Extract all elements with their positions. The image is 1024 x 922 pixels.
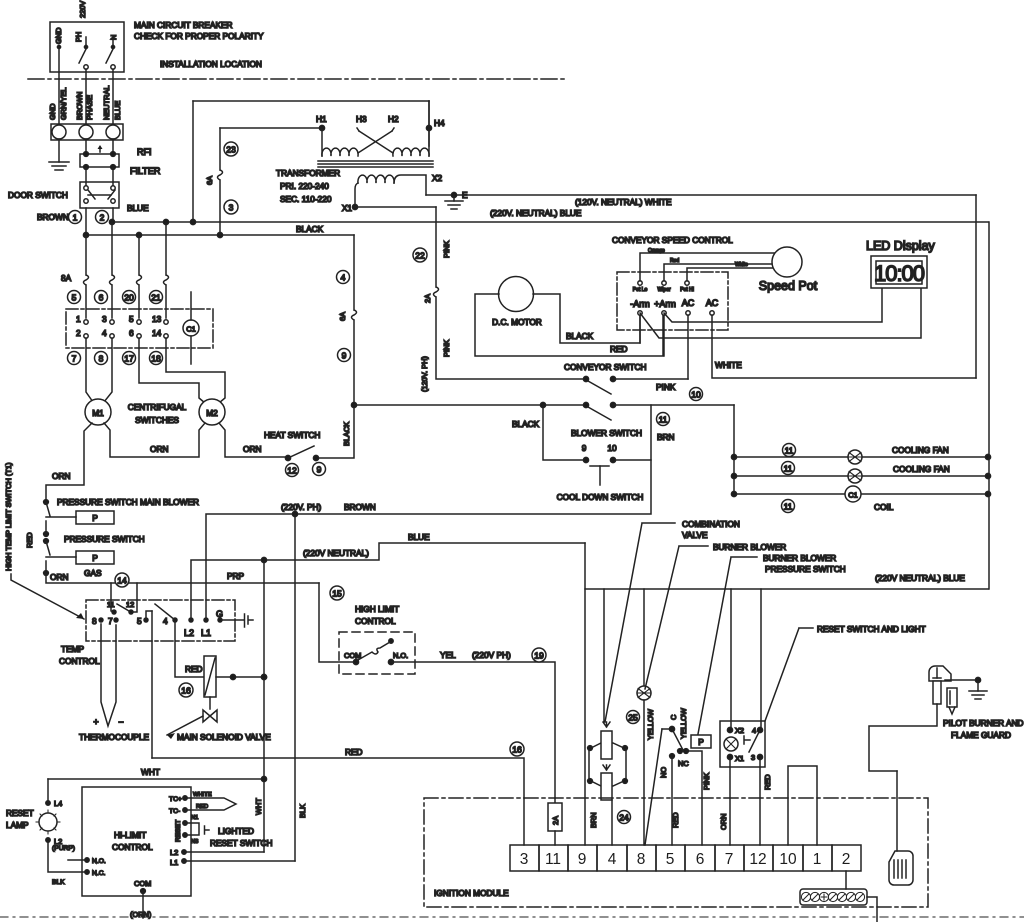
svg-text:4: 4: [608, 851, 617, 868]
svg-text:BLK: BLK: [298, 804, 307, 818]
svg-text:+Arm: +Arm: [654, 299, 676, 309]
svg-text:H2: H2: [388, 114, 399, 124]
svg-text:CONTROL: CONTROL: [112, 842, 153, 852]
cooling fan 1: [734, 456, 988, 458]
svg-text:PINK: PINK: [656, 382, 676, 392]
svg-text:X2: X2: [735, 726, 744, 735]
ground E: [451, 192, 456, 197]
pot terminals: [638, 281, 642, 285]
svg-text:E: E: [462, 190, 468, 200]
svg-text:FILTER: FILTER: [130, 166, 161, 176]
svg-text:5: 5: [666, 851, 675, 868]
svg-text:THERMOCOUPLE: THERMOCOUPLE: [79, 732, 150, 742]
svg-text:H3: H3: [356, 114, 367, 124]
svg-text:14: 14: [117, 576, 127, 586]
balloon 10: [690, 388, 703, 401]
svg-text:RED: RED: [196, 804, 208, 810]
svg-text:3: 3: [229, 203, 234, 213]
contactor box: [66, 309, 213, 348]
ground: [58, 139, 60, 162]
junction blue bus / fuse column 4: [163, 219, 168, 224]
balloon 22: [413, 248, 427, 262]
main circuit breaker box: [50, 22, 124, 72]
svg-text:BROWN: BROWN: [344, 502, 376, 512]
reset switch and light box: [720, 721, 765, 767]
callout burner blower pressure switch: [698, 557, 757, 734]
svg-text:LED Display: LED Display: [866, 239, 936, 253]
svg-text:RED: RED: [345, 747, 363, 757]
svg-text:L2: L2: [184, 628, 194, 638]
contact 3 down to terminal 12: [759, 759, 761, 845]
svg-text:N.O.: N.O.: [393, 651, 408, 660]
svg-text:1: 1: [73, 213, 78, 223]
terminal 2 to spark strip: [845, 871, 847, 889]
svg-text:20: 20: [124, 293, 134, 303]
svg-text:1: 1: [76, 314, 81, 324]
blue right vertical: [988, 222, 990, 589]
svg-text:6: 6: [99, 293, 104, 303]
contactor coil C1: [183, 320, 199, 336]
pink X1 column with 2A fuse: [434, 207, 587, 379]
combination valve feed: [603, 589, 605, 722]
svg-text:YELLOW: YELLOW: [679, 708, 688, 739]
pressure switch main blower: [44, 500, 49, 505]
SECTION I: ignition module: [424, 766, 928, 922]
svg-text:-Arm: -Arm: [630, 299, 650, 309]
svg-text:PILOT BURNER AND: PILOT BURNER AND: [943, 718, 1024, 728]
svg-text:220V: 220V: [78, 1, 87, 18]
svg-text:RESET SWITCH AND LIGHT: RESET SWITCH AND LIGHT: [817, 624, 926, 634]
neutral drop to solenoid junction and WHT: [263, 560, 265, 852]
cool down loop: [543, 405, 651, 460]
pin4 wire to solenoid: [175, 620, 204, 677]
terminal row: [510, 845, 861, 871]
red wire into terminal 3: [523, 798, 525, 845]
strip output wire: [867, 897, 877, 922]
svg-text:YEL: YEL: [440, 650, 456, 660]
svg-text:CONTROL: CONTROL: [59, 656, 100, 666]
primary coil left: [322, 148, 358, 156]
svg-text:24: 24: [619, 813, 629, 823]
svg-text:L4: L4: [54, 799, 62, 808]
SECTION E: conveyor motor control: [413, 195, 976, 401]
svg-text:8: 8: [637, 851, 646, 868]
SECTION H: burner zone: [585, 519, 988, 845]
balloon 8: [95, 352, 108, 365]
crossed links: [358, 131, 392, 153]
svg-text:(120V. PH): (120V. PH): [420, 356, 429, 392]
svg-text:13: 13: [152, 314, 162, 324]
svg-text:SEC. 110-220: SEC. 110-220: [280, 194, 332, 204]
X2 feed from neutral: [730, 589, 732, 728]
pin5 wire down to RED line: [151, 611, 153, 758]
svg-text:BURNER BLOWER: BURNER BLOWER: [763, 553, 836, 563]
svg-text:RESET SWITCH: RESET SWITCH: [210, 838, 273, 848]
wire ORN M1 to M2: [104, 423, 205, 457]
svg-text:4: 4: [752, 726, 756, 735]
combination valve: [589, 743, 626, 786]
svg-text:RED: RED: [185, 664, 203, 674]
svg-text:RESET: RESET: [175, 820, 182, 842]
blower switch line: [354, 404, 586, 406]
svg-text:AC: AC: [682, 298, 695, 308]
AC wires: [687, 315, 689, 379]
svg-text:BLACK: BLACK: [342, 422, 351, 446]
svg-text:COM: COM: [344, 651, 361, 660]
svg-text:ORN: ORN: [719, 814, 728, 830]
fuse F2 8A: [110, 222, 115, 318]
svg-text:22: 22: [415, 251, 425, 261]
door switch outputs: [85, 208, 87, 235]
RFI filter: [80, 154, 119, 167]
motor M1: [85, 399, 111, 425]
svg-text:5: 5: [137, 616, 142, 626]
svg-text:NC: NC: [678, 759, 689, 768]
svg-text:2A: 2A: [551, 816, 560, 825]
svg-text:N.O.: N.O.: [92, 858, 106, 865]
solenoid coil: [204, 656, 216, 697]
svg-text:CONTROL: CONTROL: [355, 616, 396, 626]
fuse 6A black column to heat circuit: [316, 235, 357, 458]
balloon 11: [657, 413, 670, 426]
SECTION D: black column heat switch: [264, 235, 357, 477]
dc motor: [499, 277, 534, 312]
svg-text:Pot Lo: Pot Lo: [633, 287, 648, 293]
svg-text:PRESSURE SWITCH: PRESSURE SWITCH: [64, 534, 145, 544]
svg-text:PINK: PINK: [442, 340, 451, 357]
L1 wire up to brown: [206, 460, 651, 620]
svg-text:6A: 6A: [338, 312, 347, 321]
svg-text:RED: RED: [610, 344, 628, 354]
svg-text:7: 7: [108, 616, 113, 626]
svg-text:N.C.: N.C.: [92, 870, 106, 877]
black hot bus: [85, 234, 354, 236]
svg-text:25: 25: [628, 713, 638, 723]
junction blue bus / door switch blue wire: [109, 219, 114, 224]
svg-text:8A: 8A: [61, 273, 72, 283]
svg-text:PHASE: PHASE: [85, 95, 94, 120]
svg-text:CHECK FOR PROPER POLARITY: CHECK FOR PROPER POLARITY: [134, 31, 264, 41]
svg-text:6: 6: [696, 851, 705, 868]
svg-text:N3: N3: [191, 839, 198, 845]
svg-text:WHT: WHT: [141, 767, 160, 777]
svg-text:9: 9: [317, 465, 322, 475]
L2 wire up to neutral: [191, 543, 585, 620]
svg-text:P: P: [92, 513, 98, 523]
svg-text:(120V. NEUTRAL) WHITE: (120V. NEUTRAL) WHITE: [575, 197, 672, 207]
svg-text:6A: 6A: [205, 176, 214, 185]
svg-text:INSTALLATION LOCATION: INSTALLATION LOCATION: [160, 59, 262, 69]
X1 lead: [355, 183, 358, 207]
svg-text:(ORN): (ORN): [130, 910, 151, 919]
balloon 5: [68, 291, 81, 304]
svg-text:9: 9: [578, 851, 587, 868]
junction black bus / fuse column 3: [136, 232, 141, 237]
svg-text:3: 3: [520, 851, 529, 868]
orn gas line to pin 11: [46, 573, 319, 583]
svg-text:WHITE: WHITE: [193, 792, 212, 798]
wire ORN M1 to pressure switch chain: [46, 423, 92, 500]
temp control box: [86, 600, 235, 641]
balloon 3: [224, 200, 238, 214]
balloon 9b: [313, 463, 326, 476]
svg-text:8: 8: [92, 616, 97, 626]
svg-text:12: 12: [126, 600, 134, 609]
wires to RFI: [85, 139, 87, 154]
svg-text:7: 7: [725, 851, 734, 868]
svg-text:ORN: ORN: [50, 572, 68, 582]
SECTION G: temp control zone: [4, 460, 651, 861]
svg-text:10: 10: [691, 390, 701, 400]
svg-text:DOOR SWITCH: DOOR SWITCH: [8, 190, 68, 200]
svg-text:16: 16: [512, 745, 522, 755]
RED long line to terminal 3: [152, 758, 524, 798]
arm connections: [639, 315, 641, 343]
flame guard wire to electrode: [869, 704, 937, 771]
svg-text:PINK: PINK: [442, 241, 451, 258]
X2 lead: [394, 175, 426, 195]
svg-text:C1: C1: [848, 491, 857, 500]
svg-text:3: 3: [751, 753, 755, 762]
wire contacts 6,14 to motor M2: [139, 338, 225, 403]
svg-text:2: 2: [100, 213, 105, 223]
svg-text:(PURP): (PURP): [52, 845, 75, 852]
svg-text:TRANSFORMER: TRANSFORMER: [276, 168, 340, 178]
balloon 1: [69, 211, 82, 224]
contact 4 feed: [760, 589, 762, 728]
svg-text:IGNITION MODULE: IGNITION MODULE: [434, 888, 509, 898]
svg-text:12: 12: [287, 466, 297, 476]
BRN wire continues to terminal 9: [584, 589, 586, 845]
svg-text:COOLING FAN: COOLING FAN: [893, 464, 950, 474]
svg-text:RFI: RFI: [137, 147, 152, 157]
svg-text:HIGH LIMIT: HIGH LIMIT: [355, 604, 399, 614]
svg-text:ORN: ORN: [243, 444, 261, 454]
door switch: [80, 182, 119, 208]
svg-text:BROWN: BROWN: [37, 212, 69, 222]
svg-text:19: 19: [534, 651, 544, 661]
svg-text:PINK: PINK: [702, 773, 711, 790]
svg-text:2A: 2A: [423, 294, 432, 303]
svg-text:11: 11: [107, 600, 115, 609]
svg-text:RED: RED: [671, 812, 680, 828]
primary coil right: [393, 148, 429, 156]
NO to terminal 5: [671, 756, 673, 845]
electrode lead: [896, 771, 898, 851]
svg-text:14: 14: [152, 328, 162, 338]
NC to terminal 6: [686, 751, 702, 845]
balloon 19: [532, 648, 546, 662]
X1 down to terminal 7: [729, 759, 731, 845]
svg-text:(220V. PH): (220V. PH): [281, 502, 322, 512]
svg-text:VALVE: VALVE: [682, 530, 708, 540]
motor M2: [199, 399, 225, 425]
svg-text:C: C: [669, 714, 678, 720]
junction black bus / brown wire: [83, 232, 88, 237]
svg-text:PRI. 220-240: PRI. 220-240: [280, 181, 329, 191]
svg-text:(220V. NEUTRAL) BLUE: (220V. NEUTRAL) BLUE: [490, 208, 582, 218]
svg-text:Wiper: Wiper: [657, 287, 670, 293]
spark terminal strip: [800, 889, 867, 905]
svg-text:5: 5: [72, 293, 77, 303]
svg-text:4: 4: [163, 616, 168, 626]
svg-text:4: 4: [341, 273, 346, 283]
svg-text:BLACK: BLACK: [296, 224, 324, 234]
svg-text:PRP: PRP: [227, 571, 245, 581]
svg-text:NO: NO: [659, 767, 668, 778]
solenoid valve body: [209, 697, 211, 709]
N.O. N.C.: [85, 858, 89, 862]
svg-text:WHITE: WHITE: [715, 360, 742, 370]
svg-text:M1: M1: [92, 408, 104, 418]
svg-text:7: 7: [72, 354, 77, 364]
L2 L1 G: [189, 618, 193, 622]
svg-text:10:00: 10:00: [874, 261, 925, 286]
svg-text:LIGHTED: LIGHTED: [218, 826, 254, 836]
pilot ground wire: [945, 679, 978, 681]
fuse F3 8A: [137, 235, 142, 318]
svg-text:TC-: TC-: [169, 808, 180, 815]
svg-text:11: 11: [545, 851, 561, 868]
svg-text:C1: C1: [186, 325, 195, 334]
junction blue bus / transformer H4 riser: [190, 219, 195, 224]
svg-text:PRESSURE SWITCH MAIN BLOWER: PRESSURE SWITCH MAIN BLOWER: [57, 497, 199, 507]
balloon 2: [96, 211, 109, 224]
svg-text:16: 16: [181, 686, 191, 696]
svg-text:COOLING FAN: COOLING FAN: [892, 445, 949, 455]
svg-text:YELLOW: YELLOW: [646, 709, 655, 740]
svg-text:X1: X1: [735, 754, 744, 763]
svg-text:TEMP: TEMP: [61, 644, 85, 654]
balloon 7: [68, 352, 81, 365]
svg-text:BLUE: BLUE: [408, 532, 430, 542]
svg-text:L1: L1: [170, 858, 178, 867]
fan feed: [733, 405, 735, 494]
svg-text:TC+: TC+: [169, 796, 182, 803]
svg-text:Orange: Orange: [648, 248, 665, 254]
svg-text:−: −: [118, 717, 123, 727]
svg-text:15: 15: [332, 589, 342, 599]
svg-text:FLAME GUARD: FLAME GUARD: [951, 730, 1011, 740]
svg-text:(220V NEUTRAL) BLUE: (220V NEUTRAL) BLUE: [875, 573, 965, 583]
svg-text:H4: H4: [434, 118, 445, 128]
SECTION F: blower cool-down fans: [354, 222, 991, 589]
SECTION K: pilot burner: [0, 666, 1024, 917]
220V neutral blue bottom run: [585, 543, 988, 589]
svg-text:PH: PH: [74, 32, 83, 42]
svg-text:L2: L2: [170, 848, 178, 857]
svg-text:4: 4: [102, 328, 107, 338]
flame sensor: [947, 688, 957, 707]
svg-text:HI-LIMIT: HI-LIMIT: [114, 830, 146, 840]
thermocouple: [101, 624, 116, 726]
svg-text:11: 11: [659, 415, 668, 425]
SECTION B: distribution and motors: [46, 219, 988, 500]
svg-text:+: +: [93, 717, 98, 727]
svg-text:11: 11: [784, 502, 793, 512]
fuse 6A feeding transformer H1: [220, 127, 322, 129]
wire ORN M2 to heat switch: [219, 423, 288, 457]
pot wires: [640, 253, 776, 281]
balloon 12: [286, 464, 299, 477]
balloon 23: [224, 142, 238, 156]
svg-text:P: P: [92, 553, 98, 563]
motor loop red: [475, 294, 663, 356]
flame electrode: [889, 851, 913, 885]
svg-text:L1: L1: [201, 628, 211, 638]
svg-text:G: G: [216, 609, 223, 619]
svg-text:D.C. MOTOR: D.C. MOTOR: [492, 317, 542, 327]
svg-text:GAS: GAS: [84, 568, 102, 578]
svg-text:GND: GND: [54, 28, 63, 44]
svg-text:11: 11: [784, 464, 793, 474]
junction black bus / transformer 6A fuse: [217, 232, 222, 237]
bottom boundary: [0, 916, 1024, 918]
valve out to terminal 4: [611, 800, 613, 845]
balloon 25: [627, 711, 640, 724]
balloon 16a: [179, 683, 193, 697]
svg-text:BLUE: BLUE: [113, 101, 122, 120]
core: [318, 160, 433, 162]
svg-text:WHT: WHT: [254, 798, 263, 815]
svg-text:9: 9: [342, 351, 347, 361]
svg-text:MAIN CIRCUIT BREAKER: MAIN CIRCUIT BREAKER: [134, 20, 233, 30]
YEL line to 2A: [391, 662, 555, 798]
wires to door switch: [85, 167, 87, 186]
svg-text:2: 2: [842, 851, 851, 868]
hi-limit control box: [82, 787, 191, 896]
common diagonal to terminal 8: [645, 729, 662, 845]
terminal 10 to 1 jumper: [788, 766, 817, 845]
svg-text:23: 23: [226, 145, 236, 155]
svg-text:9: 9: [582, 443, 587, 453]
SECTION J: hi-limit box: [6, 779, 295, 919]
svg-text:ORN: ORN: [150, 444, 168, 454]
fuse F4 8A: [164, 222, 169, 318]
svg-text:BURNER BLOWER: BURNER BLOWER: [713, 542, 786, 552]
speed pot: [772, 247, 802, 277]
balloon 21: [150, 291, 163, 304]
balloon 16b: [510, 742, 524, 756]
svg-text:BROWN: BROWN: [75, 92, 84, 120]
balloon 20: [123, 291, 136, 304]
svg-text:N1: N1: [191, 815, 198, 821]
svg-text:M2: M2: [206, 408, 218, 418]
svg-text:1: 1: [813, 851, 822, 868]
svg-text:MAIN SOLENOID VALVE: MAIN SOLENOID VALVE: [177, 732, 271, 742]
coil line: [734, 493, 988, 495]
svg-text:BLK: BLK: [52, 879, 65, 886]
cooling fan 2: [734, 475, 988, 477]
callout combination valve: [605, 523, 675, 722]
svg-text:CONVEYOR SPEED CONTROL: CONVEYOR SPEED CONTROL: [612, 235, 733, 245]
svg-text:NEUTRAL: NEUTRAL: [102, 86, 111, 121]
callout reset switch and light: [765, 628, 813, 721]
svg-text:BRN: BRN: [657, 432, 675, 442]
svg-text:BRN: BRN: [589, 812, 598, 828]
svg-text:COM: COM: [134, 879, 151, 888]
svg-text:17: 17: [124, 354, 134, 364]
svg-text:X2: X2: [432, 173, 443, 183]
SECTION C: transformer: [193, 101, 976, 235]
2A fuse: [554, 798, 556, 803]
terminal block: [51, 124, 123, 140]
svg-text:COOL DOWN SWITCH: COOL DOWN SWITCH: [557, 492, 644, 502]
svg-text:RESET: RESET: [6, 808, 34, 818]
svg-text:P: P: [698, 737, 704, 747]
svg-text:CONVEYOR SWITCH: CONVEYOR SWITCH: [564, 362, 647, 372]
burner blower fan: [637, 686, 651, 700]
